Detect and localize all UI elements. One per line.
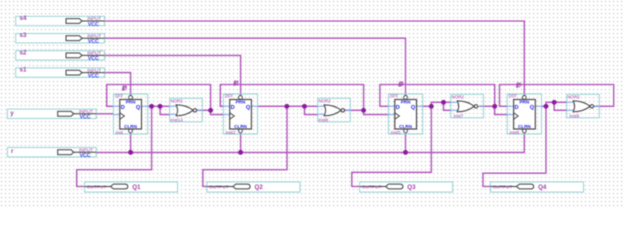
svg-text:Q3: Q3 [407, 184, 416, 191]
svg-text:inst8: inst8 [319, 118, 329, 123]
svg-text:inst9: inst9 [570, 114, 580, 119]
svg-text:s2: s2 [20, 49, 27, 56]
svg-text:Q1: Q1 [132, 184, 141, 191]
svg-text:s4: s4 [20, 15, 27, 22]
svg-text:Q2: Q2 [255, 184, 264, 191]
svg-text:inst6: inst6 [510, 130, 520, 135]
svg-text:Q4: Q4 [538, 184, 547, 191]
svg-text:inst7: inst7 [454, 114, 464, 119]
svg-text:inst: inst [116, 130, 124, 135]
svg-text:inst14: inst14 [171, 118, 184, 123]
svg-text:s1: s1 [20, 67, 27, 74]
svg-text:inst2: inst2 [226, 130, 236, 135]
svg-text:inst5: inst5 [391, 130, 401, 135]
svg-text:s3: s3 [20, 32, 27, 39]
svg-text:y: y [10, 110, 14, 117]
